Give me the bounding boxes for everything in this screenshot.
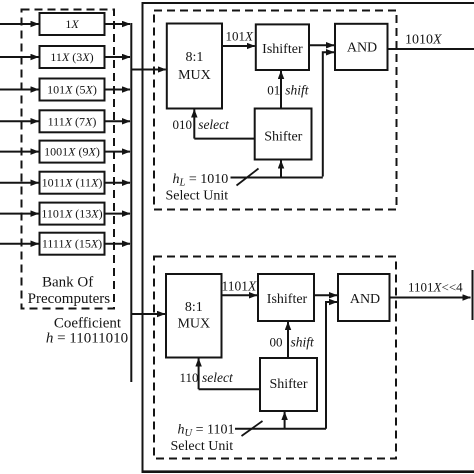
svg-text:shift: shift [285, 83, 310, 98]
svg-text:AND: AND [347, 41, 377, 56]
svg-text:1X: 1X [65, 17, 79, 31]
input wire X to 15X box [0, 243, 39, 245]
output wire from 9X box to bus [105, 151, 131, 153]
input wire X to 5X box [0, 89, 39, 91]
svg-text:8:1: 8:1 [185, 300, 203, 315]
wire AND1 output 1010X [388, 48, 474, 50]
bank of precomputers dashed box [22, 10, 115, 309]
svg-text:select: select [202, 370, 234, 385]
wire select riser into MUX2 [198, 359, 200, 390]
AND 2 box [338, 274, 390, 321]
wire hU riser to AND2 second input [326, 302, 337, 429]
svg-text:Shifter: Shifter [269, 377, 307, 392]
svg-text:111X (7X): 111X (7X) [48, 114, 97, 128]
svg-text:1111X (15X): 1111X (15X) [42, 237, 102, 251]
vertical line at right edge (next stage input) [472, 270, 474, 320]
Ishifter 2 box [258, 274, 314, 321]
svg-text:00: 00 [270, 335, 283, 350]
precomputer box 3X [40, 46, 105, 68]
output wire from 11X box to bus [105, 182, 131, 184]
Ishifter 1 box [256, 24, 309, 70]
wire Shifter2 to Ishifter2 (shift) [287, 322, 289, 358]
svg-text:select: select [198, 117, 230, 132]
svg-text:h = 11011010: h = 11011010 [46, 331, 128, 347]
output wire from 7X box to bus [105, 120, 131, 122]
input wire X to 7X box [0, 120, 39, 122]
output wire from 13X box to bus [105, 213, 131, 215]
wire bus to MUX2 [131, 313, 165, 315]
wire hL riser to AND1 second input [323, 52, 334, 176]
Shifter 1 box [255, 109, 312, 160]
wire select horizontal from Shifter1 [194, 138, 254, 140]
slash bus-width mark on hL wire [237, 169, 259, 186]
svg-text:1011X (11X): 1011X (11X) [42, 176, 103, 190]
wire hL branch into Shifter1 bottom [280, 161, 282, 178]
wire Ishifter1 to AND1 [309, 44, 334, 46]
svg-text:1101X (13X): 1101X (13X) [41, 207, 102, 221]
AND 1 box [335, 24, 388, 70]
wire AND2 output 1101X<<4 [390, 297, 471, 299]
wire Shifter1 to Ishifter1 (shift) [280, 71, 282, 109]
svg-text:Shifter: Shifter [264, 130, 302, 145]
output wire from 1X box to bus [105, 23, 131, 25]
svg-text:hU = 1101: hU = 1101 [178, 423, 235, 440]
svg-text:Ishifter: Ishifter [267, 292, 308, 307]
svg-text:11X (3X): 11X (3X) [50, 50, 93, 64]
svg-text:hL = 1010: hL = 1010 [173, 172, 229, 189]
input wire X to 1X box [0, 23, 39, 25]
svg-text:101X (5X): 101X (5X) [47, 83, 97, 97]
svg-text:Select Unit: Select Unit [166, 189, 229, 204]
svg-text:101X: 101X [226, 29, 255, 44]
precomputer box 13X [40, 203, 105, 225]
svg-text:MUX: MUX [178, 68, 211, 83]
input wire X to 9X box [0, 151, 39, 153]
svg-text:Coefficient: Coefficient [54, 316, 122, 332]
svg-text:8:1: 8:1 [185, 50, 203, 65]
precomputer box 1X [40, 13, 105, 35]
svg-text:shift: shift [291, 335, 316, 350]
wire bus to MUX1 [131, 69, 166, 71]
precomputer box 5X [40, 79, 105, 101]
svg-text:1101X<<4: 1101X<<4 [408, 280, 463, 295]
wire MUX1 to Ishifter1 (101X) [222, 45, 255, 47]
svg-text:010: 010 [173, 117, 193, 132]
svg-text:1101X: 1101X [222, 279, 258, 294]
Shifter 2 box [260, 358, 317, 411]
wire hL horizontal [231, 177, 323, 179]
svg-text:110: 110 [180, 370, 199, 385]
wire MUX2 to Ishifter2 (1101X) [222, 294, 258, 296]
vertical bus line [130, 23, 132, 382]
mux U1 8:1 MUX [167, 24, 222, 109]
mux U2 8:1 MUX [166, 274, 222, 358]
wire hU horizontal [235, 428, 326, 430]
precomputer box 15X [40, 233, 105, 255]
input wire X to 3X box [0, 56, 39, 58]
svg-text:1010X: 1010X [405, 33, 442, 48]
svg-text:MUX: MUX [177, 317, 210, 332]
svg-text:1001X (9X): 1001X (9X) [44, 145, 100, 159]
svg-text:Precomputers: Precomputers [28, 291, 111, 307]
precomputer box 7X [40, 110, 105, 132]
output wire from 3X box to bus [105, 56, 131, 58]
outer enclosure box (clipped at right edge) [143, 3, 474, 471]
precomputer box 9X [40, 141, 105, 163]
input wire X to 13X box [0, 213, 39, 215]
precomputer box 11X [40, 172, 105, 194]
wire select horizontal from Shifter2 [199, 388, 260, 390]
input wire X to 11X box [0, 182, 39, 184]
slash bus-width mark on hU wire [242, 421, 263, 436]
svg-text:Ishifter: Ishifter [262, 42, 303, 57]
svg-text:01: 01 [267, 83, 280, 98]
select unit 2 dashed box [154, 257, 396, 459]
wire select riser into MUX1 [193, 110, 195, 139]
svg-text:AND: AND [350, 292, 380, 307]
wire Ishifter2 to AND2 [314, 294, 337, 296]
svg-text:Bank Of: Bank Of [42, 275, 93, 291]
wire hU branch into Shifter2 bottom [284, 412, 286, 429]
output wire from 5X box to bus [105, 89, 131, 91]
select unit 1 dashed box [154, 11, 397, 210]
svg-text:Select Unit: Select Unit [171, 439, 234, 454]
output wire from 15X box to bus [105, 243, 131, 245]
